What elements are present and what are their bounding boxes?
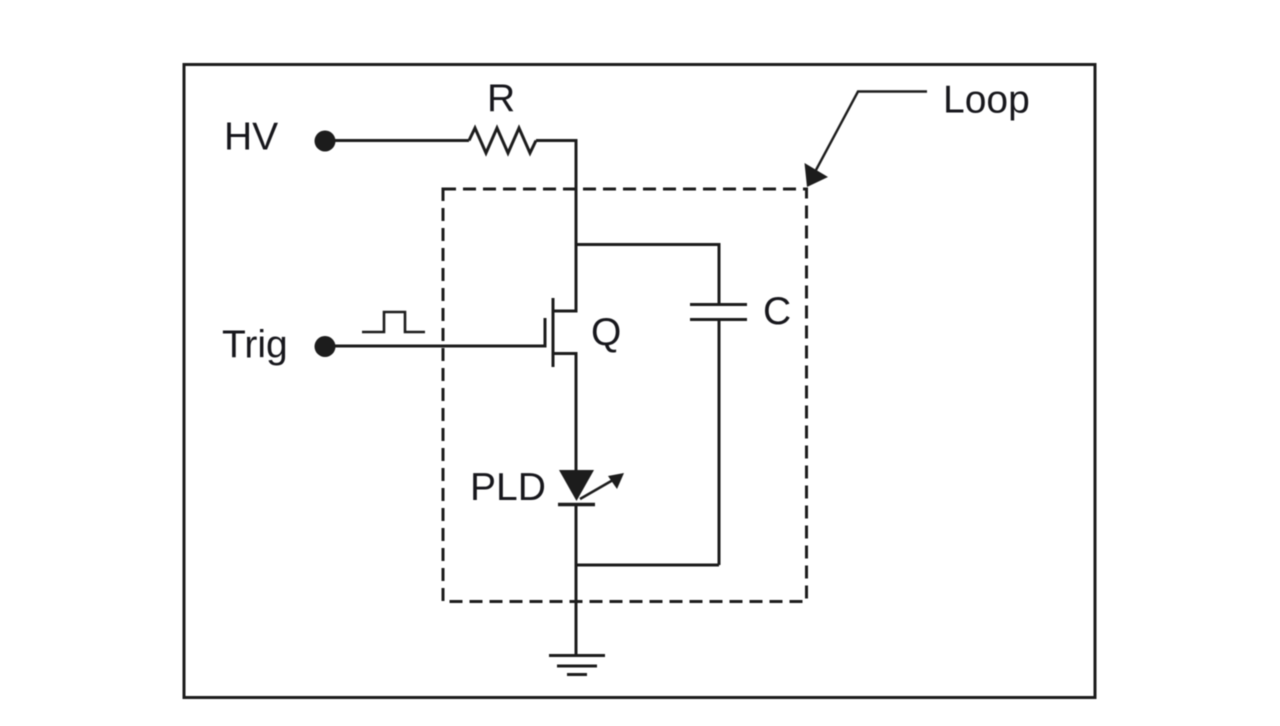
svg-text:R: R xyxy=(487,77,515,120)
wire LED cathode to ground xyxy=(575,504,578,656)
svg-text:Trig: Trig xyxy=(222,324,288,367)
HV terminal dot xyxy=(315,131,336,152)
wire resistor to drain (corner) xyxy=(536,141,576,312)
svg-text:PLD: PLD xyxy=(470,466,546,509)
transistor Q source lead xyxy=(552,352,578,355)
wire bottom junction to capacitor bottom xyxy=(576,564,719,567)
wire source to LED anode xyxy=(575,354,578,472)
schematic outer box xyxy=(184,65,1095,698)
ground bar 1 xyxy=(549,654,605,657)
capacitor C bottom plate xyxy=(690,318,747,321)
ground bar 3 xyxy=(567,673,587,676)
svg-text:Q: Q xyxy=(591,311,621,354)
wire Trig to gate xyxy=(330,345,545,348)
wire capacitor bottom leg xyxy=(718,321,721,565)
LED PLD triangle xyxy=(559,470,594,501)
transistor Q gate bar xyxy=(544,318,547,348)
capacitor C top plate xyxy=(690,303,747,306)
loop leader line xyxy=(816,92,927,171)
transistor Q drain lead xyxy=(552,310,578,313)
loop leader arrowhead xyxy=(805,163,829,187)
svg-text:C: C xyxy=(763,290,791,333)
loop boundary dashed box xyxy=(443,189,807,602)
wire HV dot to resistor xyxy=(330,139,469,142)
LED PLD emission arrow shaft xyxy=(580,480,613,499)
resistor R xyxy=(469,128,536,153)
svg-text:HV: HV xyxy=(224,116,278,159)
trigger pulse symbol xyxy=(362,312,425,332)
ground bar 2 xyxy=(557,665,597,668)
svg-text:Loop: Loop xyxy=(943,79,1030,122)
Trig terminal dot xyxy=(315,336,336,357)
transistor Q channel bar xyxy=(552,298,555,367)
LED PLD cathode bar xyxy=(558,503,595,507)
wire drain node to capacitor top xyxy=(576,245,719,304)
LED PLD emission arrowhead xyxy=(608,473,624,489)
